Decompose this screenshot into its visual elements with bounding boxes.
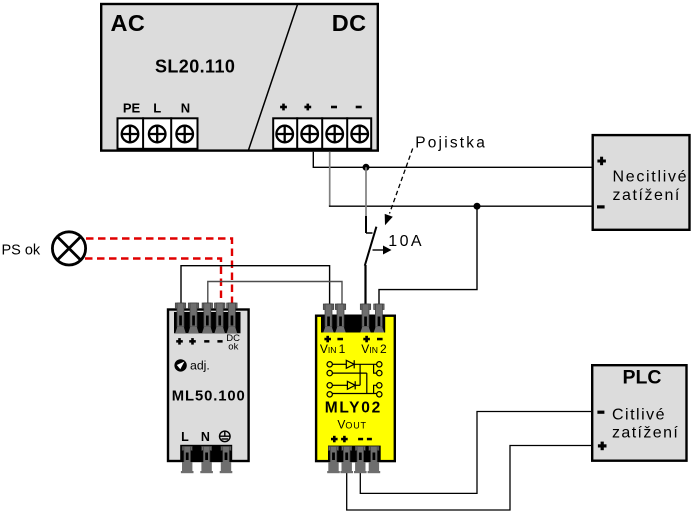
- ML50 bottom pins: [181, 446, 232, 473]
- ML50 bottom terminal strip: [180, 445, 232, 461]
- AC/DC divider diagonal line: [249, 5, 298, 151]
- Pojistka leader dashed arrow: [390, 149, 413, 214]
- svg-text:Pojistka: Pojistka: [415, 134, 487, 151]
- red wire lamp to - (dashed): [85, 259, 221, 304]
- ML50 label + 1: [176, 338, 183, 345]
- wire MLY02 out- to PLC -: [360, 412, 591, 494]
- svg-text:AC: AC: [111, 10, 146, 36]
- screw terminal PE: [122, 126, 139, 143]
- load box PLC: [592, 365, 686, 461]
- MLY02 bottom terminal strip: [328, 446, 381, 461]
- module MLY02 body: [316, 316, 395, 461]
- MLY02 label + Vin2: [363, 336, 370, 343]
- fuse 10A symbol: [365, 216, 377, 305]
- label DC - 1: [331, 106, 337, 109]
- wire - branch to MLY02 Vin2-: [379, 206, 477, 305]
- wire ML50 + to MLY02 Vin1 +: [181, 266, 330, 304]
- wire DC+ to Necitlive +: [313, 152, 591, 168]
- ML50 earth symbol: [220, 431, 231, 442]
- AC terminal block: [118, 118, 198, 149]
- MLY02 label - Vin1: [337, 338, 343, 341]
- svg-text:L: L: [153, 101, 161, 116]
- fuse arrow to 10A: [373, 249, 384, 251]
- diode D1 row: [332, 363, 346, 365]
- wire joining diode outputs: [359, 364, 361, 385]
- ML50 label - 2: [217, 340, 222, 343]
- screw terminal L: [149, 126, 166, 143]
- label - on Necitlive: [597, 205, 605, 208]
- svg-text:Necitlivé: Necitlivé: [613, 168, 689, 185]
- svg-text:VIN 1: VIN 1: [320, 342, 346, 356]
- wire joining minus rails: [366, 373, 368, 393]
- label DC + 1: [280, 104, 287, 111]
- svg-text:zatížení: zatížení: [612, 424, 679, 441]
- ML50 label + 2: [189, 338, 196, 345]
- MLY02 bottom pins: [327, 446, 380, 473]
- svg-text:VIN 2: VIN 2: [361, 342, 387, 356]
- MLY02 label out - 1: [358, 438, 363, 441]
- MLY02 label + Vin1: [324, 336, 331, 343]
- svg-text:N: N: [181, 101, 190, 116]
- node junction dot on - wire: [474, 203, 481, 210]
- svg-text:ML50.100: ML50.100: [172, 389, 246, 405]
- label DC - 2: [356, 106, 362, 109]
- MLY02 label - Vin2: [377, 338, 383, 341]
- power supply SL20.110 body: [101, 4, 378, 151]
- screw terminal DC +1: [276, 126, 293, 143]
- node junction dot on + wire: [363, 164, 370, 171]
- svg-text:10A: 10A: [388, 233, 424, 250]
- screw terminal DC +2: [301, 126, 318, 143]
- wire DC- vertical (gray): [329, 152, 331, 207]
- screw terminal DC -2: [351, 126, 368, 143]
- wire MLY02 out+ to PLC +: [347, 446, 591, 511]
- label - on PLC: [597, 411, 604, 414]
- minus rail row4: [332, 393, 376, 395]
- label + on PLC: [598, 442, 607, 451]
- load box Necitlive zatizeni: [593, 135, 690, 230]
- MLY02 top pins: [323, 304, 384, 333]
- ML50 label - 1: [204, 340, 209, 343]
- bracket out+ pair: [374, 364, 377, 373]
- wire fuse feed (gray): [365, 167, 367, 216]
- diode D2 row: [332, 384, 347, 386]
- left terminal circles: [327, 362, 332, 367]
- wire ML50 - to MLY02 Vin1 - (dark gray): [208, 282, 342, 305]
- red wire lamp to DC ok (dashed): [86, 239, 232, 304]
- DC terminal block: [273, 118, 371, 149]
- wire DC- horizontal to Necitlive -: [329, 205, 592, 207]
- svg-text:zatížení: zatížení: [613, 187, 681, 204]
- svg-text:adj.: adj.: [190, 358, 210, 372]
- ML50 top pins: [175, 303, 237, 333]
- svg-text:PE: PE: [123, 101, 141, 116]
- svg-text:VOUT: VOUT: [337, 418, 366, 432]
- MLY02 label out + 1: [331, 436, 338, 443]
- right terminal circles: [377, 362, 382, 367]
- svg-text:ok: ok: [228, 342, 238, 353]
- ML50 adj icon: [174, 359, 186, 371]
- minus rail row2: [332, 372, 366, 374]
- bracket out- pair: [374, 385, 377, 393]
- svg-text:DC: DC: [332, 10, 367, 36]
- MLY02 top terminal strip: [321, 316, 385, 333]
- MLY02 label out + 2: [341, 436, 348, 443]
- svg-text:SL20.110: SL20.110: [155, 57, 235, 77]
- screw terminal N: [176, 126, 193, 143]
- lamp PS ok: [52, 232, 85, 265]
- MLY02 internal diode schematic: [327, 360, 382, 397]
- label DC + 2: [304, 104, 311, 111]
- svg-text:N: N: [201, 430, 210, 444]
- ML50 top terminal strip: [174, 312, 241, 333]
- screw terminal DC -1: [326, 126, 343, 143]
- MLY02 label out - 2: [367, 438, 372, 441]
- svg-text:PS ok: PS ok: [2, 242, 41, 258]
- module ML50.100 body: [168, 310, 249, 462]
- svg-text:MLY02: MLY02: [325, 399, 382, 416]
- svg-text:Citlivé: Citlivé: [612, 407, 666, 424]
- svg-text:L: L: [181, 430, 189, 444]
- svg-text:PLC: PLC: [623, 367, 662, 389]
- label + on Necitlive: [597, 157, 606, 166]
